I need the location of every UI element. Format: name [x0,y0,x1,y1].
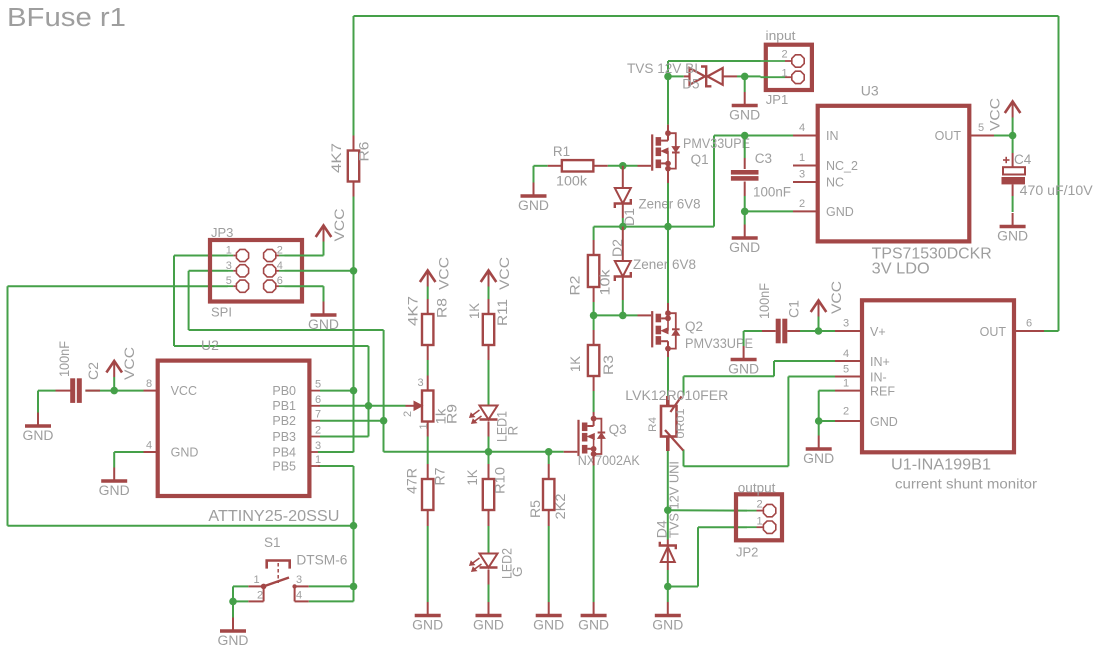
svg-text:GND: GND [412,617,443,632]
capacitor C2 [56,390,71,392]
svg-text:GND: GND [473,617,504,632]
supply VCC C4 [1012,103,1014,118]
wire C3 to ground [744,211,746,224]
switch S1 DTSM-6 [267,561,290,569]
pin Q2 gate stub [638,314,652,316]
resistor R10 [488,464,490,479]
svg-text:47R: 47R [405,468,420,494]
wire R10 to LED2 [488,526,490,553]
wire JP1 pin2 run [668,60,761,62]
junction SCK at PB2 wire [380,417,388,425]
svg-text:PB3: PB3 [272,430,296,444]
wire VCC to R11 [488,287,490,300]
svg-text:1K: 1K [467,303,482,319]
svg-text:6: 6 [277,275,283,287]
svg-text:Q3: Q3 [609,422,627,437]
wire input gnd drop [744,76,746,92]
ground GND D4 [667,602,669,615]
svg-text:U2: U2 [201,337,219,353]
wire OUT to U1 pin 6 [1044,330,1059,332]
ground GND C2 [37,413,39,426]
svg-text:4K7: 4K7 [329,143,344,173]
svg-text:6: 6 [1026,318,1032,330]
wire R3 to Q3 drain [593,391,595,412]
svg-text:SPI: SPI [211,305,232,320]
svg-text:C1: C1 [787,300,802,318]
svg-text:OUT: OUT [980,325,1007,339]
svg-text:G: G [510,566,525,577]
svg-text:R2: R2 [568,276,583,296]
ground GND JP1 [744,92,746,105]
wire U1 GND pin2 [819,420,835,422]
svg-text:GND: GND [997,228,1028,243]
svg-text:V+: V+ [870,325,886,339]
svg-text:R10: R10 [493,467,508,494]
junction MOSI at PB0 [350,387,358,395]
wire PB2 stub [320,420,384,422]
wire PB0 to MOSI net [320,390,354,392]
svg-text:REF: REF [870,385,895,399]
svg-text:5: 5 [226,275,232,287]
wire C1 left to ground [744,330,762,332]
svg-text:2: 2 [315,425,321,437]
pin U2 VCC pin 8 [144,390,158,392]
wire net MISO drop to PB1 and PB3 [368,346,370,437]
wire net RESET to PB5 [353,466,355,526]
junction output node [664,506,672,514]
wire net SCK horizontal [189,329,384,331]
svg-text:D2: D2 [610,239,625,257]
svg-text:GND: GND [826,205,854,219]
ground GND U2 [113,468,115,481]
svg-text:R1: R1 [553,144,570,159]
svg-text:IN-: IN- [870,371,887,385]
pin Q3 gate stub [564,451,578,453]
svg-text:4: 4 [799,122,805,134]
svg-text:VCC: VCC [829,281,844,314]
svg-text:input: input [766,28,796,43]
svg-text:1: 1 [799,152,805,164]
capacitor C3 [744,136,746,159]
svg-text:0R01: 0R01 [675,409,687,439]
svg-text:TVS 12V UNI: TVS 12V UNI [668,461,682,538]
svg-text:2: 2 [757,499,763,511]
wire net MISO vertical [173,256,175,347]
resistor R7 [427,464,429,479]
svg-text:DTSM-6: DTSM-6 [296,553,347,568]
wire IN+ sense [774,360,835,362]
svg-text:R4: R4 [647,417,659,432]
wire net SCK vertical [188,271,190,330]
wire input node to Q1 drain [667,76,669,124]
pin U3 NC_2 pin 1 [793,165,818,167]
wire net RESET left loop vertical [7,286,9,526]
junction RESET at x353 [350,522,358,530]
wire R7 to ground [427,526,429,602]
pin Q3 drain stub [593,412,595,419]
wire net FUSE_OUT top rail [354,15,1059,17]
wire REF to GND [819,390,835,392]
resistor R1 [548,165,562,167]
resistor R11 [488,299,490,314]
pin U3 OUT pin 5 [969,135,994,137]
wire Q2 gate rail [594,314,638,316]
junction 3V rail [1009,132,1017,140]
wire SCK rail drop [383,421,385,452]
svg-text:100nF: 100nF [57,341,72,377]
junction U2 VCC node [110,387,118,395]
svg-text:VCC: VCC [332,208,347,241]
pin U3 NC pin 3 [793,181,818,183]
junction S1 reset net [350,583,358,591]
supply VCC R11 [488,272,490,287]
wire net SCK from JP3 pin3 [189,270,228,272]
wire U3 IN [745,135,793,137]
diode LED2 [480,554,498,568]
junction D1 bottom [619,223,627,231]
pin U3 IN pin 4 [793,135,818,137]
wire JP3 pin4 to MOSI [285,270,354,272]
junction U1 V+ node [815,327,823,335]
wire net MISO from JP3 pin1 [174,255,228,257]
svg-text:PB5: PB5 [272,459,296,473]
wire JP3 pin6 to ground [285,285,324,287]
svg-text:GND: GND [308,317,339,332]
supply VCC U2 [113,363,115,378]
svg-text:R8: R8 [435,298,450,318]
junction Q1 gate node [619,162,627,170]
wire C2 to ground [38,390,56,392]
svg-text:VCC: VCC [171,384,197,398]
resistor R5 [548,464,550,479]
svg-text:1: 1 [226,245,232,257]
svg-text:OUT: OUT [935,129,962,143]
svg-text:JP1: JP1 [766,92,788,107]
ground GND LED2 [488,602,490,615]
svg-text:3: 3 [843,318,849,330]
supply VCC U1 [818,302,820,317]
diode D5 TVS 12V BI [668,75,684,77]
wire rail to R5 [548,452,550,464]
pin U1 OUT pin 6 [1014,330,1044,332]
svg-text:GND: GND [99,483,130,498]
transistor Q1 PMV33UPE [651,134,653,170]
svg-text:Zener 6V8: Zener 6V8 [633,257,696,272]
svg-text:1: 1 [254,574,260,586]
svg-text:JP3: JP3 [211,225,233,240]
svg-text:2: 2 [257,590,263,602]
svg-text:5: 5 [843,364,849,376]
svg-text:NC_2: NC_2 [826,159,858,173]
wire Q1 source to rail [667,183,669,227]
junction D5 right / GND tap [741,73,749,81]
svg-text:GND: GND [803,451,834,466]
pin Q2 bottom stub [667,346,669,357]
wire D4 to ground [667,587,669,603]
wire S1 right pins to reset net [309,585,354,587]
svg-text:R7: R7 [433,468,448,486]
svg-text:S1: S1 [264,535,281,550]
svg-text:output: output [738,481,776,496]
ground GND JP3 [323,302,325,315]
svg-text:TVS 12V BI: TVS 12V BI [627,61,698,76]
svg-text:470 uF/10V: 470 uF/10V [1020,183,1093,198]
svg-text:NC: NC [826,176,844,190]
wire R11 to LED1 [488,360,490,405]
svg-text:2: 2 [799,198,805,210]
ground GND S1 [232,618,234,631]
wire U3 OUT [994,135,1013,137]
svg-text:IN: IN [826,129,839,143]
diode D4 TVS 12V UNI [667,510,669,539]
svg-text:GND: GND [729,107,760,122]
ground GND R1 [533,183,535,196]
svg-text:U3: U3 [861,83,879,99]
svg-text:C4: C4 [1014,152,1032,167]
wire net MOSI vertical [353,197,355,453]
wire IN- sense [788,376,835,378]
wire output to JP2 pin 2 [668,509,747,511]
svg-text:3: 3 [418,377,424,389]
svg-text:GND: GND [578,617,609,632]
wire C1 right to V+ [800,330,835,332]
wire to JP1 pin 1 [745,75,761,77]
svg-text:1: 1 [315,454,321,466]
pin U3 GND pin 2 [793,210,818,212]
pin Q1 gate stub [638,165,652,167]
svg-text:PB4: PB4 [272,445,296,459]
wire R8 to R9 [427,360,429,376]
wire SCK rail to Q3 gate [384,451,564,453]
svg-text:4: 4 [146,440,152,452]
capacitor C1 [762,330,776,332]
svg-text:GND: GND [518,198,549,213]
svg-text:VCC: VCC [122,347,137,380]
junction U3 IN C3 top [741,132,749,140]
ground GND R7 [427,602,429,615]
pin Q1 source stub [667,166,669,183]
pin U1 REF pin 1 [835,390,862,392]
svg-text:R5: R5 [528,500,543,518]
junction R5 column [545,448,553,456]
pin U1 V+ pin 3 [835,330,862,332]
junction input node [664,73,672,81]
wire R5 to ground [548,526,550,602]
svg-text:100nF: 100nF [757,283,772,319]
svg-text:PMV33UPE: PMV33UPE [683,136,750,151]
svg-text:GND: GND [729,240,760,255]
diode LED1 [480,406,498,420]
svg-text:4: 4 [277,260,283,272]
svg-text:R3: R3 [601,355,616,375]
junction U3 GND C3 bottom [741,208,749,216]
svg-text:D5: D5 [682,77,699,92]
wire C4 to ground [1012,184,1014,196]
wire C2 to VCC node [85,390,143,392]
svg-text:4: 4 [843,348,849,360]
svg-text:1: 1 [418,423,430,429]
wire switched node rail [594,226,714,228]
connector JP2 [736,494,782,540]
svg-text:GND: GND [870,415,898,429]
wire net RESET down to S1 [353,526,355,587]
svg-text:4K7: 4K7 [406,296,421,326]
wire LED2 to ground [488,585,490,603]
svg-text:1: 1 [757,516,763,528]
svg-text:NX7002AK: NX7002AK [578,453,640,468]
svg-text:4: 4 [296,590,302,602]
wire rail to Q2 [667,227,669,303]
supply VCC R8 [427,272,429,287]
pin U1 GND pin 2 [835,420,862,422]
svg-text:GND: GND [218,633,249,648]
connector JP1 [766,45,812,90]
resistor R2 [593,240,595,255]
resistor R3 [593,315,595,330]
transistor Q3 NX7002AK [577,420,579,456]
trimmer R9 [427,376,429,391]
wire U3 IN horizontal [714,135,745,137]
capacitor C4 polarized [1012,136,1014,154]
svg-text:7: 7 [315,409,321,421]
wire net SCK drop to PB2 [383,330,385,421]
resistor R8 [427,299,429,314]
svg-text:3V LDO: 3V LDO [872,261,930,278]
svg-text:VCC: VCC [437,257,452,290]
wire LED1 to rail [488,437,490,452]
junction MISO at PB1 wire [365,402,373,410]
svg-text:100nF: 100nF [753,185,791,200]
connector JP3 [210,240,302,302]
svg-text:ATTINY25-20SSU: ATTINY25-20SSU [208,508,339,525]
svg-text:GND: GND [23,428,54,443]
wire PB4 to MOSI net [318,451,354,453]
wire U3 GND pin [745,210,793,212]
wire net RESET left loop top [8,285,228,287]
ground GND Q3 [593,602,595,615]
junction D2 bottom [619,312,627,320]
ground GND C3 [744,225,746,238]
resistor R6 [353,136,355,151]
svg-text:R9: R9 [445,404,460,424]
junction LED1 column [485,448,493,456]
wire S1 to ground [232,601,234,617]
pins U2 PB0-PB5 [309,390,320,392]
svg-text:3: 3 [226,260,232,272]
svg-text:5: 5 [978,122,984,134]
ground GND C4 [1012,213,1014,226]
svg-text:GND: GND [533,617,564,632]
svg-text:6: 6 [315,394,321,406]
supply VCC JP3 [323,227,325,242]
svg-text:GND: GND [171,446,199,460]
wire net MISO horizontal [174,345,369,347]
svg-text:LVK12R010FER: LVK12R010FER [625,388,728,403]
ground GND R5 [548,602,550,615]
svg-text:PB2: PB2 [272,414,296,428]
wire R4 to output node [667,451,669,510]
svg-text:2: 2 [402,411,414,417]
wire rail to R10 [488,452,490,464]
wire net RESET left loop bottom [8,525,354,527]
svg-text:C3: C3 [755,151,772,166]
wire U2 pin4 to ground [114,451,143,453]
svg-text:PB1: PB1 [272,399,296,413]
svg-text:PB0: PB0 [272,384,296,398]
ground GND U1 [818,436,820,449]
wire S1 left [233,585,248,587]
resistor R4 LVK12R010FER [666,396,670,406]
svg-text:GND: GND [652,617,683,632]
svg-text:C2: C2 [86,362,101,380]
IC U1 INA199B1 body [862,300,1014,452]
wire PB3 to PB1 net [320,436,369,438]
svg-text:U1-INA199B1: U1-INA199B1 [891,457,991,474]
IC U3 TPS71530DCKR body [818,106,970,242]
junction R2 R3 node [590,312,598,320]
wire R1 to Q1 gate [608,165,638,167]
wire Q2 to R4 [667,357,669,396]
svg-text:1K: 1K [568,356,583,372]
junction Q1 source node [664,223,672,231]
ground GND C1 [743,346,745,359]
svg-text:R: R [506,426,521,436]
svg-text:1K: 1K [465,470,480,486]
wire net FUSE_OUT right drop [1058,16,1060,331]
wire R6 top [353,16,355,136]
transistor Q2 PMV33UPE [651,311,653,347]
svg-text:3: 3 [315,440,321,452]
svg-text:current shunt monitor: current shunt monitor [895,476,1037,492]
wire rail to R2 [593,227,595,240]
svg-text:Q2: Q2 [685,319,703,334]
svg-text:R11: R11 [495,299,510,326]
svg-text:Q1: Q1 [691,152,709,167]
svg-text:VCC: VCC [497,257,512,290]
wire JP3 pin2 to VCC [285,255,324,257]
IC U2 ATTINY25-20SSU body [158,361,310,496]
junction D4 bottom [664,583,672,591]
wire VCC to R8 [427,287,429,300]
wire R9 to R7 [427,437,429,465]
pin U1 IN- pin 5 [835,376,862,378]
wire D4 to JP2 pin1 riser [668,586,698,588]
svg-text:Zener 6V8: Zener 6V8 [639,197,701,212]
svg-text:3: 3 [799,169,805,181]
wire Q3 source to ground [593,466,595,603]
svg-text:1: 1 [843,378,849,390]
svg-text:IN+: IN+ [870,355,890,369]
wire R2 to Q2 gate node [593,302,595,315]
svg-text:1: 1 [782,68,788,80]
wire R1 left to ground [534,165,548,167]
junction REF GND node [815,417,823,425]
svg-text:2: 2 [277,245,283,257]
svg-text:BFuse r1: BFuse r1 [7,4,126,32]
diode D2 Zener 6V8 [622,227,624,261]
wire switched node to U3 IN riser [713,136,715,227]
svg-text:5: 5 [315,379,321,391]
svg-text:100k: 100k [556,174,587,189]
svg-text:2: 2 [843,406,849,418]
svg-text:2: 2 [782,49,788,61]
svg-text:R6: R6 [357,142,372,162]
svg-text:3: 3 [296,574,302,586]
diode D1 Zener 6V8 [622,166,624,188]
svg-text:2K2: 2K2 [553,494,568,520]
junction MOSI at JP3 pin 4 [350,267,358,275]
pin U1 IN+ pin 4 [835,360,862,362]
